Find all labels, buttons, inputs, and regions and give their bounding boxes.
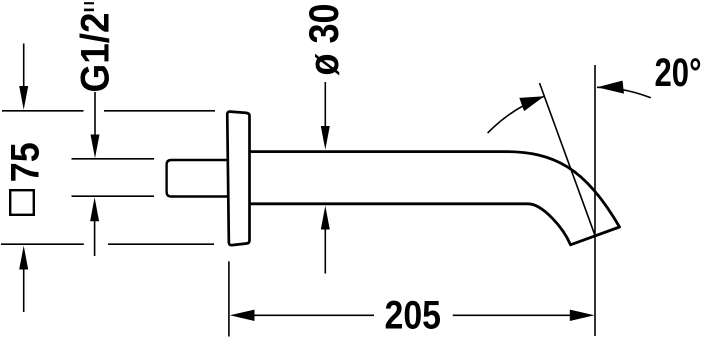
dim 205 line with arrows	[253, 314, 570, 316]
angle arc with arrow toward slanted line	[488, 96, 545, 133]
vertical reference line right	[594, 65, 596, 336]
20 degree slanted reference line	[540, 83, 596, 237]
wall flange escutcheon	[227, 112, 249, 246]
dim G1/2 upper arrow	[94, 92, 96, 136]
svg-text:20°: 20°	[655, 51, 701, 95]
G1/2 tick lines	[72, 159, 155, 196]
square symbol	[10, 190, 34, 215]
extension line top of flange	[2, 110, 215, 112]
dim 75 upper arrow	[23, 44, 25, 89]
inlet pipe G1/2 nipple	[167, 160, 228, 197]
dim diam 30 upper arrow	[324, 82, 326, 127]
extension line bottom of flange	[1, 243, 214, 245]
angle leader arrow toward vertical line	[597, 87, 651, 98]
svg-text:205: 205	[385, 294, 442, 338]
205 extension line left	[228, 261, 230, 336]
dim G1/2 lower arrow	[94, 220, 96, 256]
svg-text:ø 30: ø 30	[300, 4, 347, 76]
svg-text:G1/2: G1/2	[74, 13, 118, 93]
svg-text:75: 75	[4, 142, 48, 182]
dim diam 30 lower arrow	[324, 229, 326, 274]
dim 75 lower arrow	[23, 268, 25, 312]
spout tube body	[249, 152, 620, 245]
